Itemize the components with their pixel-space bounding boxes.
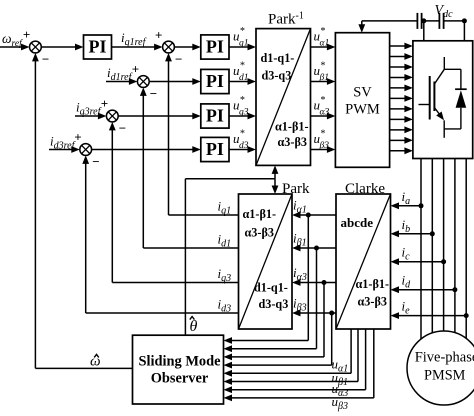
label i_d1ref bbox=[107, 65, 133, 83]
block PI current regulator d3 bbox=[201, 137, 229, 161]
label u*_&#945;3 top bbox=[314, 95, 330, 118]
block PI current regulator d1 bbox=[201, 69, 229, 93]
wire S1 to PI1 bbox=[41, 44, 83, 51]
wire Vdc rail bbox=[362, 20, 465, 22]
block PI speed regulator bbox=[84, 35, 112, 59]
wire i_&#945;3 Clarke to Park bbox=[292, 279, 336, 286]
label u*_&#946;3 top bbox=[314, 129, 330, 152]
summing junction S2 bbox=[163, 41, 175, 53]
block PI current regulator q1 bbox=[201, 35, 229, 59]
label u*_q1 bbox=[233, 26, 249, 49]
svg-text:α1-β1-: α1-β1- bbox=[243, 207, 277, 221]
wire i_d to Clarke bbox=[391, 286, 455, 293]
wire i_&#946;3 Clarke to Park bbox=[292, 310, 336, 317]
svg-text:iα3: iα3 bbox=[293, 265, 307, 283]
label omega-hat bbox=[90, 353, 101, 369]
junction dot Vdc left bbox=[421, 18, 426, 23]
svg-text:u*β1: u*β1 bbox=[314, 61, 329, 84]
label i_d3ref bbox=[50, 134, 76, 152]
label d3-q3 in Park bbox=[259, 297, 289, 311]
label Park title bbox=[282, 181, 310, 197]
svg-text:u*β3: u*β3 bbox=[314, 129, 330, 152]
junction dot i_&#946;3 bbox=[329, 311, 334, 316]
wire PI to Park-inverse row 1 bbox=[229, 44, 256, 51]
label i_e bbox=[402, 299, 411, 317]
junction dot phase e bbox=[464, 313, 469, 318]
wire S to PI current row 2 bbox=[149, 78, 201, 85]
junction dot phase d bbox=[452, 287, 457, 292]
label a3-b3 in Park inverse bbox=[278, 135, 307, 149]
junction dot phase c bbox=[441, 259, 446, 264]
svg-text:+: + bbox=[74, 130, 81, 145]
svg-text:θ: θ bbox=[190, 318, 198, 335]
label theta-hat bbox=[190, 317, 198, 336]
node omega_ref input wire bbox=[0, 44, 30, 51]
junction dot Vdc right bbox=[462, 18, 467, 23]
svg-text:α1-β1-: α1-β1- bbox=[356, 277, 390, 291]
wire i_&#946;3 tap down to SMO bbox=[224, 313, 332, 369]
label i_d3 bbox=[218, 297, 232, 315]
svg-text:d3-q3: d3-q3 bbox=[259, 297, 289, 311]
svg-text:abcde: abcde bbox=[341, 215, 374, 230]
wires SVPWM gate signals to inverter bbox=[390, 43, 413, 155]
wire i_a to Clarke bbox=[391, 202, 422, 209]
label i_d1 bbox=[218, 232, 232, 250]
sign minus at S5 bbox=[92, 154, 99, 169]
wire i_&#945;1 tap down to SMO bbox=[224, 215, 309, 344]
label u_&#945;3 bbox=[332, 381, 349, 399]
label u_&#946;1 bbox=[332, 370, 348, 388]
wire phase d inverter to PMSM bbox=[454, 159, 456, 333]
label i_q3ref bbox=[76, 100, 102, 118]
sign minus at S3 bbox=[150, 86, 157, 101]
svg-text:u*d1: u*d1 bbox=[233, 61, 249, 84]
label d1-q1- in Park inverse bbox=[261, 51, 295, 65]
sign minus at S2 bbox=[175, 52, 182, 67]
svg-text:α3-β3: α3-β3 bbox=[278, 135, 307, 149]
label i_c bbox=[402, 245, 411, 263]
sign plus at S5 bbox=[74, 130, 81, 145]
svg-text:−: − bbox=[175, 52, 182, 67]
svg-text:id1ref: id1ref bbox=[107, 65, 133, 83]
label u*_&#945;1 top bbox=[314, 26, 330, 49]
svg-text:PMSM: PMSM bbox=[424, 368, 466, 384]
junction dot i_&#945;1 bbox=[306, 213, 311, 218]
svg-text:Clarke: Clarke bbox=[345, 181, 385, 197]
block SV PWM bbox=[335, 33, 389, 168]
wire i_e to Clarke bbox=[391, 312, 467, 319]
svg-text:d1-q1-: d1-q1- bbox=[261, 51, 295, 65]
wire i_&#945;3 tap down to SMO bbox=[224, 283, 325, 361]
label i_&#945;1 bbox=[293, 198, 307, 216]
wire theta-hat into Park bbox=[272, 179, 279, 194]
wire i_b to Clarke bbox=[391, 230, 433, 237]
label a3-b3 in Clarke bbox=[358, 295, 387, 309]
svg-text:iq3ref: iq3ref bbox=[76, 100, 102, 118]
block Clarke transform bbox=[336, 194, 391, 329]
svg-text:iq1: iq1 bbox=[218, 199, 232, 217]
label u*_d1 bbox=[233, 61, 249, 84]
svg-text:Observer: Observer bbox=[151, 371, 209, 387]
wire S to PI current row 3 bbox=[118, 113, 201, 120]
label i_&#946;3 bbox=[293, 296, 307, 314]
wire PI to Park-inverse row 4 bbox=[229, 146, 256, 153]
wire Park-inverse to SVPWM row 1 bbox=[311, 44, 336, 51]
label abcde in Clarke bbox=[341, 215, 374, 230]
wire Park-inverse to SVPWM row 3 bbox=[311, 113, 336, 120]
label a1-b1- in Clarke bbox=[356, 277, 390, 291]
svg-text:PI: PI bbox=[206, 37, 224, 57]
sign plus at S1 bbox=[23, 27, 30, 42]
svg-text:u*α1: u*α1 bbox=[314, 26, 330, 49]
wire u_&#946;1 to SMO bbox=[224, 329, 359, 385]
wire omega-hat SMO to S1 bbox=[32, 53, 133, 369]
svg-text:iq1ref: iq1ref bbox=[121, 30, 147, 48]
svg-text:PWM: PWM bbox=[345, 102, 380, 118]
summing junction S4 bbox=[106, 110, 118, 122]
label a1-b1- in Park inverse bbox=[275, 120, 309, 134]
svg-text:d1-q1-: d1-q1- bbox=[254, 281, 288, 295]
label d3-q3 in Park inverse bbox=[262, 69, 292, 83]
svg-text:id1: id1 bbox=[218, 232, 232, 250]
wire theta-hat into Park inverse bbox=[272, 165, 279, 178]
svg-text:PI: PI bbox=[206, 71, 224, 91]
wire phase b inverter to PMSM bbox=[431, 159, 433, 333]
label a1-b1- in Park bbox=[243, 207, 277, 221]
block Park inverse transform bbox=[256, 29, 311, 166]
svg-text:−: − bbox=[119, 121, 126, 136]
machine Five-phase PMSM bbox=[407, 331, 474, 405]
svg-text:−: − bbox=[42, 52, 49, 67]
wire Vdc right drop to inverter bbox=[463, 21, 465, 41]
svg-text:u*d3: u*d3 bbox=[233, 129, 249, 152]
junction dot i_&#945;3 bbox=[322, 280, 327, 285]
wire Vdc left drop to inverter bbox=[423, 21, 425, 41]
wire i_q3 feedback bbox=[109, 122, 239, 283]
label i_a bbox=[402, 189, 411, 207]
wire i_q1 feedback bbox=[165, 53, 238, 215]
wire i_&#946;1 tap down to SMO bbox=[224, 248, 317, 352]
svg-text:Five-phase: Five-phase bbox=[415, 350, 474, 366]
wire PI to Park-inverse row 3 bbox=[229, 113, 256, 120]
wire PI1 to S2 bbox=[112, 44, 163, 51]
wire u_&#946;3 to SMO bbox=[224, 329, 374, 401]
wire S to PI current row 1 bbox=[174, 44, 200, 51]
svg-text:ie: ie bbox=[402, 299, 411, 317]
label i_q1ref bbox=[121, 30, 147, 48]
svg-text:+: + bbox=[155, 28, 162, 43]
svg-text:iβ1: iβ1 bbox=[293, 231, 307, 249]
wire i_d1 feedback bbox=[140, 87, 239, 248]
wire Park-inverse to SVPWM row 4 bbox=[311, 146, 336, 153]
wire i_d3 feedback bbox=[82, 155, 238, 313]
svg-text:u*α3: u*α3 bbox=[314, 95, 330, 118]
svg-text:−: − bbox=[92, 154, 99, 169]
svg-text:id: id bbox=[402, 273, 412, 291]
wire theta-hat SMO to Park blocks bbox=[185, 179, 275, 336]
label u*_d3 bbox=[233, 129, 249, 152]
junction dot i_&#946;1 bbox=[314, 246, 319, 251]
label omega_ref bbox=[2, 31, 23, 49]
summing junction S5 bbox=[80, 144, 92, 156]
wire Park-inverse to SVPWM row 2 bbox=[311, 78, 336, 85]
wire i_&#945;1 Clarke to Park bbox=[292, 212, 336, 219]
svg-text:ic: ic bbox=[402, 245, 411, 263]
sign minus at S1 bbox=[42, 52, 49, 67]
wire u_&#945;3 to SMO bbox=[224, 329, 366, 393]
label i_&#945;3 bbox=[293, 265, 307, 283]
svg-text:Park-1: Park-1 bbox=[268, 11, 304, 28]
svg-text:α3-β3: α3-β3 bbox=[358, 295, 387, 309]
svg-text:u*q1: u*q1 bbox=[233, 26, 249, 49]
label V_dc bbox=[435, 3, 454, 20]
label u_&#945;1 bbox=[332, 357, 349, 375]
svg-text:Sliding Mode: Sliding Mode bbox=[139, 354, 222, 370]
label Park^-1 title bbox=[268, 11, 304, 28]
wire phase a inverter to PMSM bbox=[420, 159, 422, 340]
label i_&#946;1 bbox=[293, 231, 307, 249]
capacitor C2 dc-link bbox=[439, 13, 443, 29]
sign plus at S2 bbox=[155, 28, 162, 43]
label i_q3 bbox=[218, 266, 232, 284]
svg-text:iβ3: iβ3 bbox=[293, 296, 307, 314]
svg-text:−: − bbox=[150, 86, 157, 101]
svg-text:PI: PI bbox=[89, 37, 107, 57]
junction dot phase b bbox=[430, 231, 435, 236]
svg-text:iq3: iq3 bbox=[218, 266, 232, 284]
label i_d bbox=[402, 273, 412, 291]
svg-text:PI: PI bbox=[206, 106, 224, 126]
block PI current regulator q3 bbox=[201, 104, 229, 128]
block Park transform bbox=[239, 194, 293, 329]
svg-text:PI: PI bbox=[206, 139, 224, 159]
wire u_&#945;1 to SMO bbox=[224, 329, 352, 377]
sign plus at S3 bbox=[132, 62, 139, 77]
label u*_&#946;1 top bbox=[314, 61, 329, 84]
label i_q1 bbox=[218, 199, 232, 217]
svg-text:d3-q3: d3-q3 bbox=[262, 69, 292, 83]
wire i_q3ref to S4 bbox=[75, 113, 106, 120]
svg-text:+: + bbox=[23, 27, 30, 42]
svg-text:+: + bbox=[101, 96, 108, 111]
wire i_d3ref to S5 bbox=[49, 146, 80, 153]
svg-text:u*q3: u*q3 bbox=[233, 95, 249, 118]
svg-text:id3: id3 bbox=[218, 297, 232, 315]
label a3-b3 in Park bbox=[245, 226, 274, 240]
wire i_c to Clarke bbox=[391, 258, 444, 265]
svg-text:α1-β1-: α1-β1- bbox=[275, 120, 309, 134]
label u_&#946;3 bbox=[332, 394, 348, 412]
svg-text:+: + bbox=[132, 62, 139, 77]
label d1-q1- in Park bbox=[254, 281, 288, 295]
wire Vdc to SVPWM top bbox=[358, 21, 365, 33]
wire S to PI current row 4 bbox=[92, 146, 201, 153]
block Sliding Mode Observer bbox=[133, 335, 224, 404]
sign plus at S4 bbox=[101, 96, 108, 111]
svg-text:Park: Park bbox=[282, 181, 310, 197]
block inverter with IGBT Q1 and diode D1 bbox=[413, 41, 473, 159]
wire phase c inverter to PMSM bbox=[443, 159, 445, 332]
summing junction S1 bbox=[30, 41, 42, 53]
svg-text:ib: ib bbox=[402, 217, 411, 235]
junction dot phase a bbox=[419, 203, 424, 208]
capacitor C1 dc-link bbox=[417, 13, 421, 29]
sign minus at S4 bbox=[119, 121, 126, 136]
summing junction S3 bbox=[137, 76, 149, 88]
wire phase e inverter to PMSM bbox=[465, 159, 467, 339]
label i_b bbox=[402, 217, 411, 235]
wire PI to Park-inverse row 2 bbox=[229, 78, 256, 85]
label Clarke title bbox=[345, 181, 385, 197]
label u*_q3 bbox=[233, 95, 249, 118]
svg-text:SV: SV bbox=[353, 85, 372, 101]
svg-text:ia: ia bbox=[402, 189, 411, 207]
wire i_d1ref to S3 bbox=[106, 78, 137, 85]
wire i_&#946;1 Clarke to Park bbox=[292, 245, 336, 252]
svg-text:α3-β3: α3-β3 bbox=[245, 226, 274, 240]
svg-text:iα1: iα1 bbox=[293, 198, 307, 216]
